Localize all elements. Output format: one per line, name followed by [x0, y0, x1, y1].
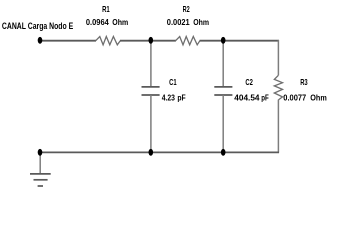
wire C1 branch lower — [150, 95, 152, 153]
wire C2 branch lower — [222, 95, 224, 153]
svg-text:4.23: 4.23 — [162, 93, 175, 103]
svg-text:0.0077: 0.0077 — [283, 93, 306, 103]
svg-text:Ohm: Ohm — [310, 93, 327, 103]
svg-text:0.0021: 0.0021 — [167, 17, 190, 27]
svg-text:Ohm: Ohm — [193, 17, 209, 27]
node dot C1 bottom junction — [149, 149, 154, 156]
wire bottom — [40, 151, 279, 153]
wire C2 branch upper — [222, 40, 224, 87]
wire top-right segment — [200, 40, 279, 42]
wire right vertical lower — [277, 100, 279, 153]
wire between R1 and R2 — [120, 40, 176, 42]
ground — [39, 152, 41, 173]
resistor R3 — [274, 75, 282, 100]
capacitor C2 — [214, 86, 232, 88]
svg-text:R2: R2 — [183, 4, 190, 14]
svg-text:C1: C1 — [169, 77, 177, 87]
svg-text:R1: R1 — [102, 4, 110, 14]
node dot R1/C1 junction — [149, 37, 154, 44]
svg-text:404.54: 404.54 — [234, 93, 259, 103]
resistor R1 — [96, 37, 121, 45]
svg-text:0.0964: 0.0964 — [86, 17, 109, 27]
node dot C2 bottom junction — [221, 149, 226, 156]
wire C1 branch upper — [150, 40, 152, 87]
svg-text:Ohm: Ohm — [112, 17, 128, 27]
wire right vertical upper — [277, 40, 279, 75]
wire top-left segment — [40, 40, 96, 42]
svg-text:R3: R3 — [300, 77, 308, 87]
node dot top-left — [38, 37, 43, 44]
capacitor C1 — [142, 86, 160, 88]
resistor R2 — [176, 37, 200, 45]
svg-text:pF: pF — [261, 93, 269, 103]
svg-text:C2: C2 — [245, 77, 253, 87]
node dot R2/C2 junction — [221, 37, 226, 44]
node dot bottom-left ground junction — [38, 149, 43, 156]
svg-text:CANAL Carga Nodo E: CANAL Carga Nodo E — [2, 21, 73, 31]
svg-text:pF: pF — [177, 93, 185, 103]
